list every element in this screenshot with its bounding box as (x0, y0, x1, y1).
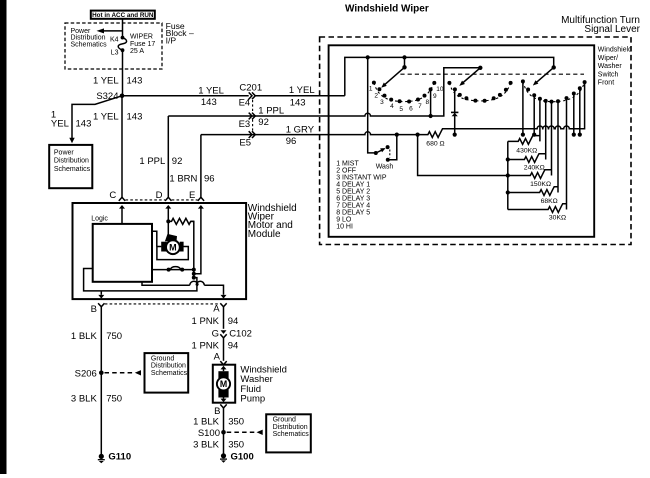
svg-text:Ground: Ground (151, 355, 174, 362)
wire A to C102 (223, 307, 225, 329)
power distribution schematics box (49, 145, 92, 188)
resistor 430K (508, 136, 540, 145)
svg-text:Pump: Pump (240, 394, 265, 405)
arrow to power distribution schematics (103, 30, 123, 32)
svg-text:10 HI: 10 HI (336, 224, 353, 231)
A feed wire from logic (142, 282, 224, 295)
svg-text:E: E (189, 190, 195, 201)
resistor 150K with feed from GRY (418, 135, 552, 179)
svg-text:1 YEL: 1 YEL (93, 111, 119, 122)
svg-text:Hot in ACC and RUN: Hot in ACC and RUN (92, 12, 154, 19)
svg-text:240KΩ: 240KΩ (524, 164, 545, 171)
svg-text:750: 750 (106, 331, 122, 342)
resistor (module) (168, 218, 194, 224)
motor M1 wiper (161, 234, 183, 254)
wire C down from S324 (121, 96, 123, 198)
svg-text:5: 5 (399, 106, 403, 113)
ground G110 (99, 454, 104, 459)
svg-text:L3: L3 (111, 49, 119, 56)
svg-text:1 BLK: 1 BLK (193, 416, 220, 427)
svg-text:3 INSTANT WIP: 3 INSTANT WIP (336, 175, 387, 182)
svg-text:B: B (91, 304, 97, 315)
svg-text:4: 4 (390, 103, 394, 110)
svg-text:Washer: Washer (598, 63, 623, 70)
svg-text:94: 94 (228, 316, 239, 327)
connector dashed line bottom (105, 303, 220, 305)
wash switch (368, 57, 376, 152)
svg-text:A: A (214, 351, 221, 362)
wire 1 YEL to switch (255, 95, 344, 97)
wire 1 YEL S324 to C201 (122, 95, 249, 97)
svg-text:Distribution: Distribution (151, 363, 186, 370)
svg-text:7: 7 (418, 103, 422, 110)
wire D vertical into motor (167, 221, 169, 235)
svg-text:YEL: YEL (51, 119, 69, 130)
svg-text:1 MIST: 1 MIST (336, 161, 359, 168)
svg-text:K4: K4 (110, 37, 119, 44)
svg-text:143: 143 (76, 119, 92, 130)
svg-text:9 LO: 9 LO (336, 217, 352, 224)
wire B to G110 (100, 307, 102, 455)
svg-text:350: 350 (228, 416, 244, 427)
svg-text:Schematics: Schematics (273, 431, 310, 438)
logic to motor wire (152, 231, 157, 246)
svg-text:143: 143 (127, 111, 143, 122)
svg-text:Windshield: Windshield (598, 47, 632, 54)
ground G100 (221, 453, 226, 458)
svg-text:Schematics: Schematics (151, 370, 188, 377)
svg-text:7 DELAY 4: 7 DELAY 4 (336, 203, 370, 210)
windshield wiper motor module box (73, 203, 247, 299)
svg-text:Switch: Switch (598, 71, 619, 78)
pump motor M (218, 371, 228, 378)
svg-text:8: 8 (426, 99, 430, 106)
svg-text:E3: E3 (239, 119, 251, 130)
svg-text:1 BRN: 1 BRN (169, 173, 197, 184)
B feed wire from logic (84, 269, 197, 291)
svg-text:1 GRY: 1 GRY (286, 124, 315, 135)
svg-text:1 YEL: 1 YEL (289, 85, 315, 96)
wire C into logic (121, 206, 123, 224)
svg-text:E5: E5 (239, 138, 251, 149)
svg-text:10: 10 (436, 86, 444, 93)
wire to pump (223, 338, 225, 361)
svg-text:430KΩ: 430KΩ (516, 147, 537, 154)
svg-text:143: 143 (127, 76, 143, 87)
wire D down (167, 116, 169, 197)
left branch wire to power distribution (72, 96, 122, 139)
svg-text:1 PPL: 1 PPL (258, 106, 284, 117)
svg-text:E4: E4 (239, 98, 251, 109)
fuse WIPER 25A (121, 36, 125, 40)
svg-text:Signal Lever: Signal Lever (584, 24, 640, 35)
svg-text:750: 750 (106, 394, 122, 405)
svg-text:94: 94 (228, 340, 239, 351)
svg-text:Wash: Wash (376, 164, 394, 171)
svg-text:Fuse 17: Fuse 17 (130, 41, 155, 48)
svg-text:25 A: 25 A (130, 48, 144, 55)
svg-text:4 DELAY 1: 4 DELAY 1 (336, 182, 370, 189)
wafer 1 contacts (372, 81, 436, 104)
svg-text:1 PNK: 1 PNK (192, 340, 220, 351)
svg-text:Logic: Logic (91, 216, 108, 223)
svg-text:9: 9 (433, 93, 437, 100)
wafer 2 contacts (447, 81, 512, 103)
wire 2 PPL into switch (255, 68, 480, 116)
mechanical linkage dashed (400, 73, 584, 75)
connector C201 E4 (249, 92, 256, 99)
wiper washer switch inner box (329, 45, 595, 237)
svg-text:Power: Power (54, 149, 75, 156)
wire 3 GRY rail with 680 and hops (255, 82, 584, 137)
switch arm 2 (478, 66, 482, 70)
ground distribution schematics box 2 (266, 414, 311, 452)
park switch (152, 269, 194, 271)
svg-text:96: 96 (204, 173, 215, 184)
svg-text:1 BLK: 1 BLK (71, 331, 98, 342)
svg-text:C201: C201 (239, 83, 262, 94)
svg-text:Windshield Wiper: Windshield Wiper (345, 3, 429, 14)
svg-text:1 PNK: 1 PNK (192, 316, 220, 327)
ground distribution schematics box 1 (145, 353, 189, 393)
svg-text:Ground: Ground (273, 417, 296, 424)
svg-text:1: 1 (369, 86, 373, 93)
washer pump box (213, 365, 235, 403)
switch arm 3 (552, 65, 556, 69)
svg-text:Schematics: Schematics (71, 41, 108, 48)
svg-text:Front: Front (598, 80, 614, 87)
motor loop wires (157, 247, 188, 260)
connector dashed link (252, 100, 254, 131)
svg-text:A: A (213, 304, 220, 315)
svg-text:1 YEL: 1 YEL (93, 76, 119, 87)
svg-text:G100: G100 (231, 451, 254, 462)
svg-text:92: 92 (258, 117, 269, 128)
fuse block I/P dashed box (65, 23, 162, 69)
svg-text:30KΩ: 30KΩ (549, 215, 566, 222)
svg-text:D: D (156, 190, 163, 201)
svg-text:I/P: I/P (166, 35, 177, 45)
svg-text:3: 3 (380, 99, 384, 106)
diode (454, 89, 456, 134)
page left black bar (0, 0, 7, 474)
wire from hot box to fuse (122, 19, 124, 38)
svg-text:S206: S206 (75, 368, 97, 379)
svg-text:350: 350 (228, 440, 244, 451)
svg-text:6: 6 (409, 106, 413, 113)
svg-text:Module: Module (248, 229, 281, 240)
legend (336, 161, 387, 231)
top rail wire (345, 57, 554, 95)
svg-text:Wiper/: Wiper/ (598, 55, 618, 62)
svg-text:G110: G110 (108, 452, 131, 463)
svg-text:2 OFF: 2 OFF (336, 168, 356, 175)
svg-text:Schematics: Schematics (54, 166, 91, 173)
svg-text:M: M (169, 243, 177, 253)
contact 9 drop to PPL wire (430, 89, 432, 116)
svg-text:6 DELAY 3: 6 DELAY 3 (336, 196, 370, 203)
svg-text:1 YEL: 1 YEL (198, 85, 224, 96)
svg-text:G: G (212, 328, 219, 339)
svg-text:143: 143 (290, 98, 306, 109)
wafer 3 contacts (521, 79, 587, 103)
multifunction lever outer dashed box (320, 37, 631, 245)
wire fuse to S324 (122, 50, 124, 96)
svg-text:C: C (109, 190, 116, 201)
switch arm 1 (404, 57, 406, 67)
svg-text:143: 143 (201, 97, 217, 108)
connector dashed line top (126, 199, 198, 201)
Hot in ACC and RUN box (91, 11, 155, 19)
svg-text:WIPER: WIPER (130, 33, 153, 40)
svg-text:Distribution: Distribution (54, 158, 89, 165)
resistor 30K (508, 204, 567, 213)
svg-text:1 PPL: 1 PPL (139, 156, 165, 167)
wire B pump to G100 (223, 408, 225, 455)
wafer 3 contact drops (523, 81, 580, 209)
svg-text:S100: S100 (198, 428, 220, 439)
svg-text:Distribution: Distribution (273, 424, 308, 431)
svg-text:M: M (220, 379, 227, 389)
svg-text:C102: C102 (229, 328, 252, 339)
wire E down (200, 135, 202, 198)
svg-text:150KΩ: 150KΩ (530, 181, 551, 188)
svg-text:92: 92 (172, 156, 183, 167)
resistor 68K (508, 187, 558, 196)
jog E wire to resistor leg (194, 206, 201, 274)
resistor ladder bus (507, 141, 509, 209)
resistor 240K (508, 154, 546, 163)
svg-text:96: 96 (286, 136, 297, 147)
svg-text:2: 2 (374, 93, 378, 100)
svg-text:680 Ω: 680 Ω (426, 140, 444, 147)
svg-text:68KΩ: 68KΩ (541, 198, 558, 205)
svg-text:3 BLK: 3 BLK (71, 394, 98, 405)
svg-text:3 BLK: 3 BLK (193, 440, 220, 451)
wire D to resistor (167, 206, 169, 221)
